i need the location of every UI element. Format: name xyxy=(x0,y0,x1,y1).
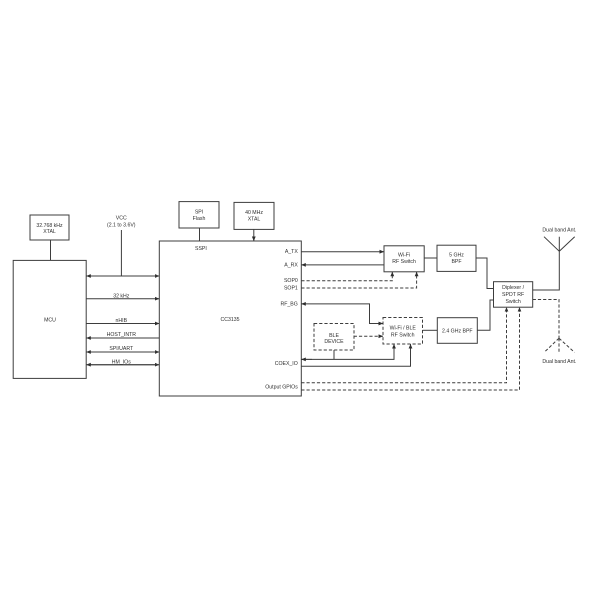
svg-text:Dual band Ant.: Dual band Ant. xyxy=(542,359,576,365)
svg-text:Switch: Switch xyxy=(505,299,520,305)
svg-text:MCU: MCU xyxy=(44,318,56,324)
svg-text:VCC: VCC xyxy=(116,216,127,222)
svg-text:Diplexer /: Diplexer / xyxy=(502,285,524,291)
svg-text:HOST_INTR: HOST_INTR xyxy=(107,332,137,338)
svg-text:32 kHz: 32 kHz xyxy=(113,293,130,299)
svg-text:RF Switch: RF Switch xyxy=(392,259,416,265)
svg-text:A_RX: A_RX xyxy=(284,263,298,269)
svg-text:XTAL: XTAL xyxy=(43,229,56,235)
svg-text:CC3135: CC3135 xyxy=(220,317,239,323)
svg-text:SSPI: SSPI xyxy=(195,246,207,252)
svg-text:5 GHz: 5 GHz xyxy=(449,253,464,259)
svg-text:SOP1: SOP1 xyxy=(284,286,298,292)
svg-text:(2.1 to 3.6V): (2.1 to 3.6V) xyxy=(107,222,136,228)
svg-text:40 MHz: 40 MHz xyxy=(245,210,263,216)
svg-text:Output GPIOs: Output GPIOs xyxy=(265,385,298,391)
svg-text:BPF: BPF xyxy=(451,259,461,265)
svg-text:A_TX: A_TX xyxy=(285,249,299,255)
svg-text:BLE: BLE xyxy=(329,333,339,339)
svg-text:Wi-Fi / BLE: Wi-Fi / BLE xyxy=(390,326,417,332)
svg-text:Dual band Ant.: Dual band Ant. xyxy=(542,227,576,233)
svg-text:SPDT RF: SPDT RF xyxy=(502,292,524,298)
svg-text:SPI: SPI xyxy=(195,210,203,216)
svg-text:RF_BG: RF_BG xyxy=(281,301,298,307)
svg-text:Flash: Flash xyxy=(193,216,206,222)
svg-text:SOP0: SOP0 xyxy=(284,278,298,284)
svg-text:HM_IOs: HM_IOs xyxy=(112,359,131,365)
svg-text:SPI/UART: SPI/UART xyxy=(109,346,134,352)
svg-text:nHIB: nHIB xyxy=(116,318,128,324)
svg-text:COEX_IO: COEX_IO xyxy=(275,361,298,367)
svg-text:XTAL: XTAL xyxy=(248,216,261,222)
svg-text:Wi-Fi: Wi-Fi xyxy=(398,253,410,259)
svg-text:DEVICE: DEVICE xyxy=(324,339,344,345)
svg-text:2.4 GHz BPF: 2.4 GHz BPF xyxy=(442,329,473,335)
svg-text:RF Switch: RF Switch xyxy=(391,332,415,338)
